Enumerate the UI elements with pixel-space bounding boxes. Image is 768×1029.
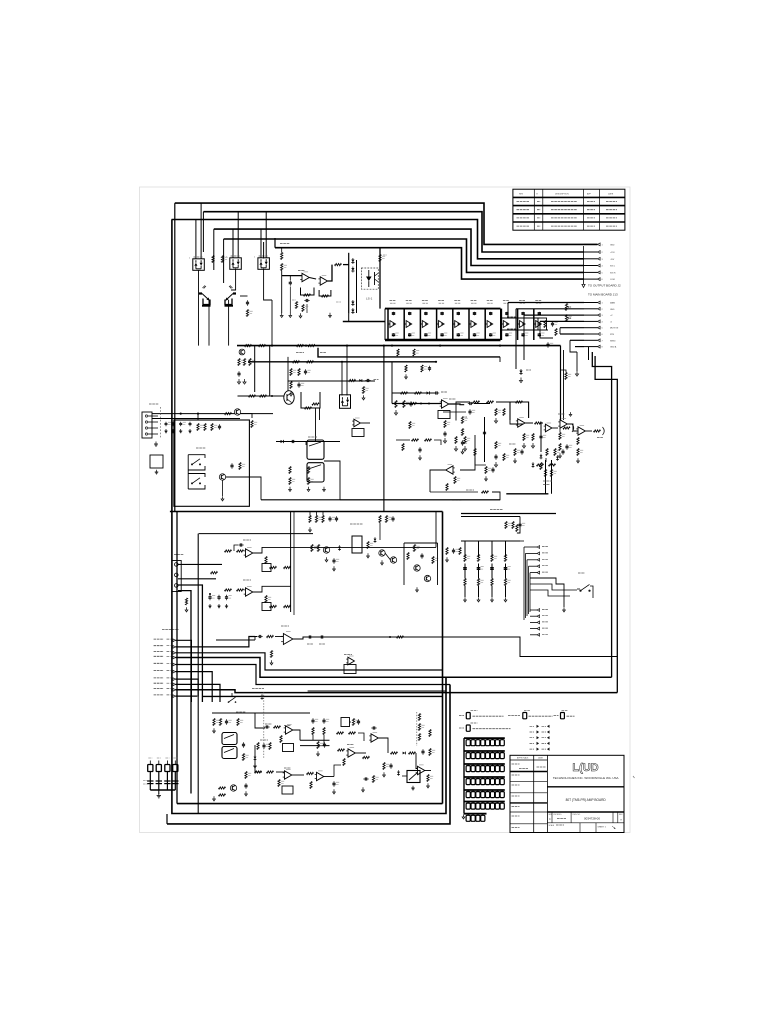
- wire u5b out: [253, 586, 291, 592]
- box fb u9: [283, 744, 294, 752]
- capacitor CG18: [471, 766, 475, 772]
- net label FX SEND: [154, 655, 164, 657]
- capacitor CT2: [156, 780, 162, 782]
- wire u10 in: [276, 771, 284, 773]
- wire bus B1: [175, 203, 598, 244]
- wire band bottom thick: [506, 493, 548, 495]
- ground G11: [395, 410, 397, 413]
- switch SW2: [192, 478, 200, 484]
- diode D7: [427, 391, 430, 394]
- resistor R41: [259, 345, 266, 347]
- resistor R42: [238, 359, 240, 366]
- label INPUT: [149, 403, 159, 405]
- label AMP SECTION: [350, 523, 363, 525]
- resistor R90: [289, 467, 291, 474]
- connector J2 pins: [598, 243, 601, 246]
- capacitor C52c: [484, 430, 486, 432]
- wire to ls1 column: [343, 264, 349, 266]
- capacitor C97: [390, 763, 392, 765]
- label u7: [344, 654, 352, 656]
- capacitor C63: [189, 422, 191, 424]
- ground grid: [463, 814, 465, 817]
- resistor R48: [307, 361, 314, 363]
- wire right end h2: [501, 329, 541, 331]
- pot VR4: [565, 315, 567, 322]
- polarized capacitor C62: [180, 422, 182, 424]
- stray mark right of title: [633, 776, 635, 778]
- resistor R3: [246, 310, 248, 317]
- resistor R73: [454, 477, 456, 484]
- gnd hangs: [405, 374, 407, 377]
- resistor R72: [474, 449, 476, 456]
- mixer extra res Rd: [402, 444, 404, 451]
- resistor R75: [495, 442, 497, 449]
- wire pins of K2: [232, 229, 234, 258]
- wire u6 pre: [275, 636, 284, 638]
- buffer U2e: [455, 321, 461, 328]
- bl extra gnd e: [317, 751, 319, 754]
- rail381 res down: [362, 387, 364, 394]
- ground GR169: [577, 458, 579, 461]
- connector stub 4: [173, 656, 176, 659]
- wire step e: [570, 340, 577, 352]
- wire amp rail right corner: [379, 248, 381, 309]
- resistor R166: [559, 433, 561, 440]
- label r18: [292, 299, 296, 301]
- label J4: [174, 554, 184, 556]
- connector stub 9: [173, 688, 176, 691]
- wire amp cluster bottom rail: [343, 321, 385, 323]
- capacitor CG21: [486, 766, 490, 772]
- bl extra res Rp: [245, 772, 247, 779]
- svg-text:GND A: GND A: [610, 346, 617, 349]
- resistor R136c: [409, 752, 416, 754]
- label TB2 left: [508, 715, 520, 717]
- vertical trunk c2: [269, 346, 271, 396]
- node dot J1b: [428, 403, 430, 405]
- ground GBL3: [213, 796, 215, 799]
- relay connector K2: [230, 258, 242, 270]
- capacitor CG45: [486, 803, 490, 809]
- dashed shield wire: [160, 407, 162, 439]
- resistor R13: [322, 295, 329, 297]
- resistor R47b: [260, 395, 267, 397]
- mute pin stubs upper: [537, 546, 540, 549]
- resistor R4B: [535, 422, 542, 424]
- wire vert 392 to mixer: [391, 362, 393, 404]
- svg-text:DATE: DATE: [608, 192, 614, 195]
- transistor Q10: [230, 785, 236, 791]
- wire VU bottom bus: [385, 339, 501, 342]
- label stage 6: [471, 300, 478, 302]
- capacitor CT1: [147, 780, 153, 782]
- resistor R14: [335, 264, 342, 266]
- resistor R150: [464, 555, 466, 562]
- svg-text:MUTE IN: MUTE IN: [610, 328, 619, 330]
- resistor R2: [221, 256, 223, 263]
- wire cap row 7 rail: [464, 813, 487, 815]
- capacitor CG37: [486, 792, 490, 798]
- label jack: [308, 436, 317, 438]
- capacitor C64: [219, 424, 221, 426]
- resistor R157: [504, 579, 506, 586]
- op-amp U14: [418, 766, 425, 774]
- mute pin stubs lower: [537, 609, 540, 612]
- net label PFL L: [154, 669, 164, 671]
- mixer extra res Rh: [549, 464, 556, 466]
- net label AUX SEND: [154, 651, 164, 653]
- svg-text:TO OUTPUT BOARD J2: TO OUTPUT BOARD J2: [588, 284, 621, 288]
- resistor R99: [185, 598, 187, 605]
- ground GBL2: [333, 789, 335, 792]
- wire fan 3 ext A: [176, 653, 443, 670]
- wire long horizontals mid page: [237, 345, 561, 347]
- resistor R60: [565, 373, 567, 380]
- wire fan 9 ext D: [176, 690, 618, 693]
- resistor R58: [403, 401, 405, 408]
- wire mute fan: [520, 540, 524, 542]
- op-amp U10: [285, 771, 292, 779]
- svg-text:DATE: DATE: [538, 757, 544, 760]
- capacitor CG9: [466, 753, 470, 759]
- wire input rail 2: [152, 418, 240, 420]
- rail381 cap: [365, 380, 367, 382]
- resistor R83: [225, 413, 232, 415]
- ground GA4: [329, 313, 331, 316]
- wire loop L2: [172, 220, 446, 814]
- op-amp U3B small: [354, 419, 361, 427]
- pot VR3: [565, 304, 567, 311]
- resistor R66: [473, 401, 480, 403]
- capacitor CG40: [500, 792, 504, 798]
- amp mid box: [352, 536, 362, 553]
- diode D3: [351, 302, 354, 305]
- wire stage 10 verticals: [533, 309, 535, 340]
- label TB1 left: [459, 715, 464, 717]
- resistor R107: [237, 589, 244, 591]
- capacitor C90: [257, 636, 259, 638]
- bl extra res Rk: [257, 743, 259, 750]
- resistor R129: [278, 780, 280, 787]
- op-amp U4A: [518, 419, 525, 427]
- net label MUTE BUS: [154, 682, 164, 684]
- transistor Q5: [239, 349, 245, 355]
- rail381 diode: [359, 379, 362, 382]
- capacitor C36: [490, 333, 492, 334]
- bl extra res Rm: [317, 742, 319, 749]
- net label MAIN L: [154, 638, 164, 640]
- capacitor C61: [172, 422, 174, 424]
- capacitor C1: [247, 300, 249, 302]
- svg-text:TO MAIN BOARD J13: TO MAIN BOARD J13: [588, 293, 618, 297]
- capacitor C102: [464, 566, 466, 568]
- bl extra gnd g: [245, 791, 247, 794]
- wire u16 link: [567, 424, 577, 431]
- op-amp U16A: [560, 420, 567, 428]
- svg-text:MAIN: MAIN: [610, 302, 616, 305]
- wire J13 feed 5: [560, 327, 584, 329]
- bl extra diode Db: [254, 757, 257, 760]
- capacitor C82: [226, 595, 228, 597]
- connector stub 5: [173, 663, 176, 666]
- capacitor CG52: [481, 815, 485, 821]
- title block left rows: [510, 759, 547, 761]
- label U1A: [298, 270, 305, 272]
- resistor R19: [302, 305, 304, 312]
- amp cluster A resistors: [309, 516, 311, 523]
- resistor R71: [464, 437, 466, 444]
- node dot 383: [383, 345, 385, 347]
- bl extra res Ri: [213, 719, 215, 726]
- ground G18: [495, 462, 497, 465]
- wire rail y511: [170, 511, 443, 513]
- amp cluster A transistor: [323, 547, 329, 553]
- ground GBX1: [156, 470, 158, 472]
- ground G15: [495, 418, 497, 421]
- capacitor CG4: [481, 740, 485, 746]
- wire J13 feed 8: [575, 346, 584, 348]
- label amps: [265, 723, 272, 725]
- buffer U2a: [390, 321, 396, 328]
- capacitor CG47: [495, 803, 499, 809]
- resistor R108: [265, 596, 267, 603]
- amp cluster B transistor 2: [390, 557, 396, 563]
- vertical trunk c1: [254, 346, 256, 392]
- bl extra cap Cf: [324, 742, 326, 744]
- label TB4 left: [459, 727, 464, 729]
- wire u3a top fb: [443, 411, 466, 413]
- capacitor C101: [519, 522, 521, 524]
- wire J13 feed 6: [560, 333, 584, 335]
- op-amp U12: [348, 749, 355, 757]
- resistor R136: [363, 756, 370, 758]
- transistor Q2: [233, 292, 236, 294]
- wire hpf rail 1: [300, 739, 330, 741]
- wire TP2 lead: [158, 772, 160, 791]
- ground GU6: [271, 660, 273, 663]
- wire u3b out: [361, 422, 370, 424]
- wire fan 8: [176, 684, 221, 702]
- wire rail y500: [261, 499, 500, 501]
- resistor R4C: [540, 463, 542, 470]
- capacitor CG41: [466, 803, 470, 809]
- capacitor C81: [218, 595, 220, 597]
- capacitor C33: [441, 333, 443, 334]
- wire bl step: [334, 765, 341, 777]
- wire mute col 1: [464, 549, 466, 556]
- resistor R59a: [410, 402, 417, 404]
- revision table: [513, 189, 625, 230]
- capacitor C35: [474, 333, 476, 334]
- wire fan 6: [176, 672, 213, 702]
- wire u4c out: [430, 470, 446, 492]
- wire u1b out up: [328, 265, 333, 281]
- jack JK1: [307, 440, 324, 459]
- wire q7 out: [241, 414, 253, 418]
- label u6: [281, 625, 289, 627]
- page sheet outline: [140, 187, 631, 833]
- amp sec extra 2: [414, 565, 420, 571]
- transistor Q1: [199, 292, 202, 294]
- capacitor C110: [566, 444, 568, 446]
- wire jack rail: [276, 441, 340, 443]
- connector TB1: [466, 713, 470, 719]
- ground G9: [244, 379, 246, 382]
- wire K3 stub: [264, 269, 272, 301]
- net label PFL R: [154, 677, 164, 679]
- wire u8 out: [293, 730, 300, 740]
- label stage 4: [438, 300, 445, 302]
- wire vertical trunk VL1: [174, 203, 176, 511]
- capacitor grid bus vertical: [463, 738, 465, 814]
- capacitor CG48: [500, 803, 504, 809]
- svg-text:DWG. NO.: DWG. NO.: [573, 814, 582, 816]
- wire u16b out: [585, 430, 592, 432]
- mixer extra res Re: [514, 449, 516, 456]
- wire mute step down: [517, 517, 520, 534]
- wire u4 link: [525, 422, 533, 424]
- capacitor C40: [552, 321, 554, 323]
- transistor Q6 big: [284, 391, 294, 405]
- svg-text:SHEET 1: SHEET 1: [598, 827, 607, 829]
- wire k5 up: [341, 362, 343, 396]
- ground GQ8: [222, 496, 224, 499]
- relay connector K1: [193, 259, 205, 271]
- wire jack feed: [305, 442, 307, 446]
- resistor R145: [505, 522, 507, 529]
- resistor R44: [249, 359, 251, 366]
- ground GR99: [186, 607, 188, 610]
- bl extra label: [236, 711, 246, 713]
- wire Q2 emitter: [231, 269, 236, 291]
- resistor R101: [225, 550, 232, 552]
- resistor R122: [274, 726, 281, 728]
- wire TP3 lead: [166, 772, 168, 791]
- wire loop L3: [167, 685, 450, 824]
- resistor R146: [512, 522, 514, 529]
- diode D5: [519, 371, 522, 374]
- feedback loop U4A: [510, 402, 529, 420]
- op-amp U6: [283, 634, 293, 645]
- diode D13: [403, 752, 406, 755]
- label c91: [307, 643, 313, 645]
- capacitor C84: [238, 544, 240, 546]
- resistor R82: [211, 424, 213, 431]
- wire right end h: [501, 317, 541, 319]
- svg-text:J: J: [189, 258, 190, 260]
- resistor R57: [395, 401, 397, 408]
- ground GR90: [289, 487, 291, 490]
- wire cap row 1 rail: [464, 737, 505, 739]
- wire stage 1 verticals: [387, 309, 389, 340]
- capacitor C94: [264, 726, 266, 728]
- resistor R80: [197, 424, 199, 431]
- capacitor CG7: [495, 740, 499, 746]
- resistor R140: [429, 730, 431, 737]
- resistor R135: [343, 759, 345, 766]
- capacitor CG1: [466, 740, 470, 746]
- resistor R47a: [249, 395, 256, 397]
- amp sec extra wires: [403, 543, 405, 585]
- title block bottom cells: [547, 822, 624, 824]
- resistor R70: [455, 437, 457, 444]
- wire strip verticals: [290, 512, 292, 613]
- label TB2 top: [524, 709, 530, 711]
- capacitor CG12: [481, 753, 485, 759]
- buffer U2b: [406, 321, 412, 328]
- svg-text:RTN: RTN: [610, 334, 615, 336]
- optocoupler LS1 box: [361, 268, 378, 289]
- bl extra res Rl: [269, 743, 271, 750]
- resistor R47: [293, 361, 300, 363]
- wire Q1 collector: [198, 270, 200, 345]
- capacitor CG29: [486, 779, 490, 785]
- capacitor CG3: [476, 740, 480, 746]
- wire stage 10 stub: [534, 323, 536, 325]
- wire stage 7 verticals: [484, 309, 486, 340]
- switch SW2 frame: [188, 474, 205, 478]
- resistor R152: [491, 555, 493, 562]
- capacitor C20: [393, 312, 395, 313]
- wire u1a out: [309, 278, 316, 280]
- capacitor C52b: [468, 403, 470, 405]
- label MAIN BOARD CONN header: [162, 629, 179, 631]
- wire strip box top: [199, 533, 313, 535]
- wire loop L1: [176, 512, 178, 804]
- resistor R168: [577, 438, 579, 445]
- resistor ladder RL1: [418, 714, 420, 721]
- ground GC81: [218, 604, 220, 606]
- wire k3 top: [263, 242, 265, 259]
- op-amp U5B: [246, 588, 253, 596]
- wire bl mid verticals: [255, 713, 265, 728]
- resistor R64: [546, 449, 548, 456]
- mixer wire a: [396, 439, 410, 441]
- resistor R62: [523, 434, 525, 441]
- wire feed vertical b: [523, 315, 525, 360]
- connbox K5: [340, 395, 351, 409]
- small box BX1: [150, 455, 163, 468]
- resistor R115: [267, 635, 274, 637]
- capacitor C37: [506, 333, 508, 334]
- resistor R10: [281, 253, 283, 260]
- capacitor C80: [209, 595, 211, 597]
- wire J13 feed 2: [516, 308, 584, 310]
- buffer U2d: [439, 321, 445, 328]
- wire j4 w2: [178, 578, 216, 580]
- smudge labels band: [466, 489, 474, 491]
- svg-text:C: C: [549, 818, 551, 821]
- optocoupler LED: [366, 277, 372, 282]
- buffer U2g: [487, 321, 493, 328]
- net label MON SEND: [154, 662, 164, 664]
- wire fb1 drop: [306, 304, 308, 313]
- wire bus B2: [203, 212, 584, 252]
- resistor R142: [427, 775, 429, 782]
- capacitor C45: [238, 371, 240, 373]
- resistor R65: [554, 449, 556, 456]
- op-amp U4B: [545, 424, 552, 432]
- wire fan 10: [176, 695, 198, 697]
- capacitor CG5: [486, 740, 490, 746]
- capacitor C27: [506, 312, 508, 313]
- capacitor C22: [425, 312, 427, 313]
- resistor R120: [237, 719, 239, 726]
- bl wire x: [358, 733, 364, 741]
- buffer U2c: [422, 321, 428, 328]
- wire bl top rail: [212, 712, 310, 714]
- capacitor CG35: [476, 792, 480, 798]
